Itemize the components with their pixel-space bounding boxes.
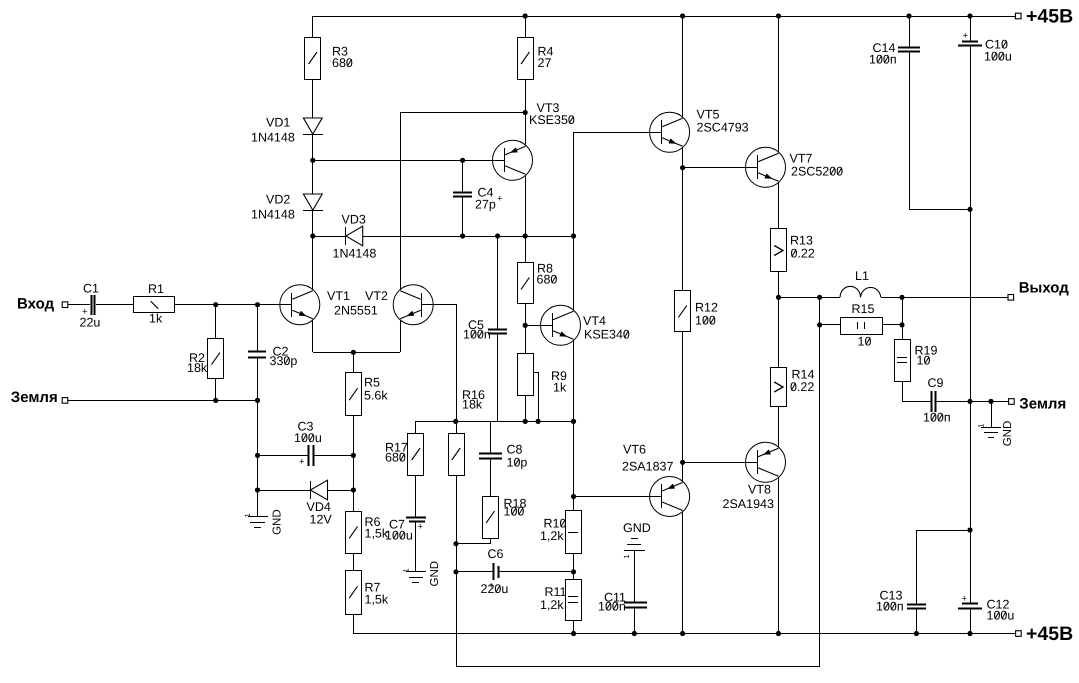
svg-text:18k: 18k	[462, 398, 483, 412]
svg-text:R15: R15	[852, 302, 875, 316]
svg-text:1N4148: 1N4148	[251, 208, 295, 222]
svg-text:KSE340: KSE340	[584, 328, 630, 342]
svg-text:Земля: Земля	[11, 389, 58, 406]
svg-text:R12: R12	[695, 301, 718, 315]
svg-text:10: 10	[858, 335, 872, 349]
svg-text:1: 1	[622, 554, 631, 558]
svg-text:100п: 100п	[876, 600, 904, 614]
svg-text:22u: 22u	[80, 316, 101, 330]
svg-text:5.6k: 5.6k	[364, 389, 388, 403]
svg-text:2SC5200: 2SC5200	[791, 165, 843, 179]
svg-text:VT4: VT4	[583, 314, 606, 328]
svg-text:+45В: +45В	[1026, 5, 1073, 27]
svg-text:220u: 220u	[481, 582, 509, 596]
svg-text:100u: 100u	[385, 529, 413, 543]
svg-text:+: +	[489, 581, 495, 592]
svg-text:VT1: VT1	[327, 289, 350, 303]
svg-text:100n: 100n	[463, 328, 491, 342]
svg-text:GND: GND	[429, 561, 441, 587]
svg-text:C9: C9	[928, 376, 944, 390]
svg-text:100п: 100п	[869, 53, 897, 67]
svg-text:VT8: VT8	[748, 483, 771, 497]
svg-text:L1: L1	[855, 269, 869, 283]
svg-text:+: +	[418, 522, 424, 533]
svg-text:2SA1837: 2SA1837	[622, 460, 673, 474]
svg-text:GND: GND	[272, 509, 284, 535]
svg-text:1,5k: 1,5k	[365, 593, 389, 607]
svg-text:+: +	[497, 194, 503, 205]
svg-text:1N4148: 1N4148	[251, 131, 295, 145]
svg-text:GND: GND	[623, 521, 651, 535]
svg-text:330p: 330p	[270, 354, 298, 368]
svg-text:100u: 100u	[294, 431, 322, 445]
svg-text:1: 1	[243, 513, 252, 517]
svg-text:+: +	[299, 457, 305, 468]
svg-text:VT5: VT5	[697, 108, 720, 122]
svg-text:VD1: VD1	[266, 116, 290, 130]
svg-text:+: +	[963, 31, 969, 42]
svg-text:1: 1	[401, 568, 410, 572]
svg-text:10: 10	[917, 354, 931, 368]
svg-text:100u: 100u	[987, 609, 1015, 623]
svg-text:1k: 1k	[553, 381, 567, 395]
svg-text:2N5551: 2N5551	[334, 304, 378, 318]
svg-text:1,2k: 1,2k	[540, 598, 564, 612]
svg-text:+: +	[82, 306, 88, 317]
svg-text:R5: R5	[364, 376, 380, 390]
svg-text:KSE350: KSE350	[529, 113, 575, 127]
svg-text:1: 1	[977, 424, 986, 428]
svg-text:Выход: Выход	[1019, 279, 1070, 296]
svg-text:1N4148: 1N4148	[333, 247, 377, 261]
svg-text:2SC4793: 2SC4793	[697, 121, 749, 135]
svg-text:100n: 100n	[598, 600, 626, 614]
svg-text:VT6: VT6	[623, 443, 646, 457]
svg-text:1k: 1k	[149, 312, 163, 326]
svg-text:Земля: Земля	[1019, 396, 1066, 413]
svg-text:C8: C8	[507, 443, 523, 457]
svg-text:Вход: Вход	[17, 295, 55, 312]
svg-text:100п: 100п	[923, 411, 951, 425]
svg-text:27: 27	[538, 56, 552, 70]
svg-text:R11: R11	[545, 585, 567, 599]
svg-text:18k: 18k	[187, 361, 208, 375]
svg-text:VD3: VD3	[342, 213, 366, 227]
svg-text:27p: 27p	[475, 198, 496, 212]
svg-text:12V: 12V	[310, 513, 333, 527]
svg-text:C1: C1	[83, 281, 99, 295]
svg-text:R1: R1	[148, 282, 164, 296]
svg-text:VT7: VT7	[790, 152, 813, 166]
svg-text:+45В: +45В	[1026, 623, 1073, 645]
svg-text:+: +	[962, 594, 968, 605]
svg-text:VT2: VT2	[365, 289, 388, 303]
svg-text:2SA1943: 2SA1943	[723, 497, 774, 511]
svg-text:GND: GND	[1002, 421, 1014, 447]
svg-text:100u: 100u	[984, 50, 1012, 64]
svg-text:VD2: VD2	[266, 193, 290, 207]
svg-text:1,2k: 1,2k	[540, 529, 564, 543]
svg-text:C6: C6	[488, 547, 504, 561]
